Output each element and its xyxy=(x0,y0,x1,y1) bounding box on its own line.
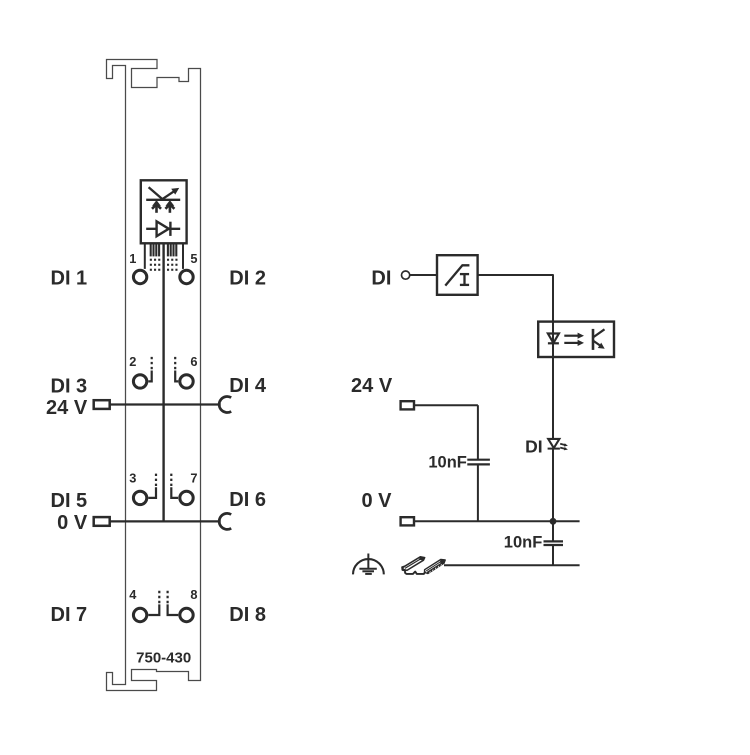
svg-text:DI 1: DI 1 xyxy=(51,268,88,290)
svg-text:5: 5 xyxy=(190,251,197,266)
svg-text:DI 5: DI 5 xyxy=(51,490,88,512)
svg-text:7: 7 xyxy=(190,470,197,485)
svg-text:DI 6: DI 6 xyxy=(229,489,266,511)
svg-text:4: 4 xyxy=(129,587,137,602)
svg-text:DI: DI xyxy=(371,267,391,289)
svg-text:750-430: 750-430 xyxy=(136,649,191,666)
svg-text:8: 8 xyxy=(190,587,197,602)
svg-text:DI 4: DI 4 xyxy=(229,375,267,397)
svg-text:24 V: 24 V xyxy=(46,397,88,419)
svg-text:2: 2 xyxy=(129,354,136,369)
svg-text:3: 3 xyxy=(129,470,136,485)
svg-text:DI: DI xyxy=(525,436,543,456)
svg-text:0 V: 0 V xyxy=(361,490,392,512)
svg-text:DI 7: DI 7 xyxy=(51,604,88,626)
svg-text:6: 6 xyxy=(190,354,197,369)
svg-text:10nF: 10nF xyxy=(504,533,543,551)
svg-text:DI 3: DI 3 xyxy=(51,375,88,397)
svg-text:1: 1 xyxy=(129,251,136,266)
svg-text:DI 2: DI 2 xyxy=(229,267,266,289)
svg-text:24 V: 24 V xyxy=(351,375,393,397)
svg-text:DI 8: DI 8 xyxy=(229,604,266,626)
svg-text:10nF: 10nF xyxy=(428,453,467,471)
svg-text:0 V: 0 V xyxy=(57,512,88,534)
